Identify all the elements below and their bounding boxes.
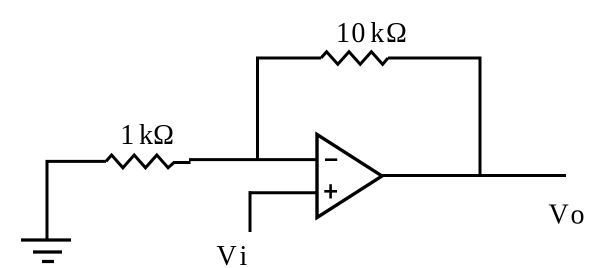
svg-text:1: 1: [120, 120, 134, 151]
op-amp U1: [317, 135, 382, 218]
wire Vi to op-amp non-inverting input: [249, 191, 318, 194]
svg-text:Ω: Ω: [153, 120, 174, 151]
wire feedback top right: [388, 57, 482, 60]
svg-text:V: V: [217, 241, 237, 268]
svg-text:k: k: [139, 120, 153, 151]
wire R1 to op-amp inverting input (node A): [189, 158, 317, 161]
op-amp inverting pin mark: [325, 158, 337, 161]
svg-text:i: i: [240, 241, 248, 268]
wire feedback right vertical: [479, 57, 482, 178]
svg-text:Ω: Ω: [386, 18, 407, 49]
node Vi: [217, 241, 248, 268]
resistor R1: [106, 155, 174, 168]
resistor R2: [321, 52, 388, 65]
value label 1kΩ: [120, 120, 174, 151]
svg-text:V: V: [549, 200, 569, 231]
svg-text:o: o: [571, 200, 585, 231]
svg-text:k: k: [370, 18, 384, 49]
svg-text:0: 0: [351, 18, 365, 49]
wire R1 lead: [173, 161, 191, 164]
value label 10kΩ: [336, 18, 407, 49]
ground: [21, 161, 71, 262]
op-amp non-inverting pin mark: [324, 184, 337, 198]
node Vo: [549, 200, 585, 231]
wire feedback left vertical: [256, 57, 259, 162]
wire feedback top left: [256, 57, 321, 60]
wire Vi stub: [249, 191, 252, 232]
svg-text:1: 1: [336, 18, 350, 49]
wire ground to R1: [46, 160, 107, 163]
wire op-amp output (node Vo): [381, 174, 566, 177]
